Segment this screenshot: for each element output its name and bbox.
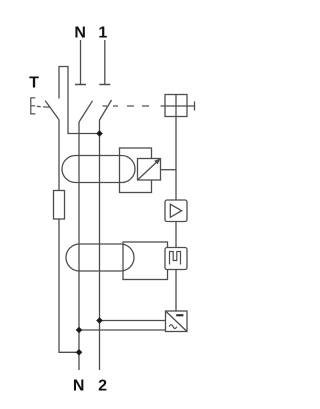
junction: pole 1 to rectifier (96, 317, 103, 324)
svg-text:T: T (29, 75, 39, 92)
resistor R1 (test resistor) (54, 191, 65, 220)
switch contact S3 (test contact blade) (45, 101, 59, 120)
amplifier U1 (triangle box) (165, 200, 187, 222)
trip relay K1 (square with arrow diagonal) (138, 159, 161, 181)
terminal N end bar (75, 84, 86, 86)
DC bar inside rectifier (176, 314, 183, 316)
junction: pole N to rectifier (76, 327, 83, 334)
trip mechanism box (165, 95, 187, 117)
current transformer W1 core (upper toroid) (62, 156, 135, 183)
AC sine inside rectifier (169, 325, 177, 329)
wire: pole N conductor down through transformers (78, 122, 80, 370)
mechanism actuator bar with end stop (165, 105, 195, 107)
wire: pole N tap to rectifier input (79, 329, 166, 331)
dashed coupling line from pole 1 to trip mechanism (103, 105, 108, 107)
wire: trip relay to vertical bus (161, 169, 177, 171)
svg-text:2: 2 (98, 378, 107, 395)
junction: test loop on pole 1 (96, 130, 103, 137)
switch contact S1 (pole N moving blade) (79, 101, 93, 122)
winding symbol box (meander) (165, 248, 187, 270)
wire: test blade to resistor (58, 120, 60, 191)
wire: winding box down to rectifier (175, 270, 177, 312)
rectifier U2 (AC/DC converter box) (166, 311, 188, 332)
wire: amplifier to winding box (175, 222, 177, 248)
dashed mechanical link of test button (37, 105, 41, 107)
switch contact S2 (pole 1 moving blade) (100, 100, 112, 120)
svg-text:N: N (74, 24, 86, 41)
wire: pole 1 conductor down through transformers (99, 120, 101, 370)
current transformer W2 core (lower toroid) (66, 244, 134, 271)
junction: test resistor return on pole N (76, 349, 83, 356)
secondary winding frame of W2 (123, 242, 168, 280)
wire: test contact fixed lead loop over poles (59, 67, 100, 134)
svg-text:1: 1 (98, 24, 107, 41)
wire: terminal N down-lead (80, 40, 82, 85)
svg-text:N: N (73, 378, 85, 395)
wire: resistor down to N bottom junction (59, 219, 79, 352)
secondary winding frame of W1 (120, 148, 152, 193)
wire: pole 1 tap to rectifier input (100, 320, 166, 322)
wire: terminal 1 down-lead (104, 40, 106, 85)
test button actuator E-bracket (31, 98, 36, 114)
terminal 1 end bar (99, 84, 110, 86)
wire: vertical through mechanism box down to amplifier (175, 95, 177, 201)
